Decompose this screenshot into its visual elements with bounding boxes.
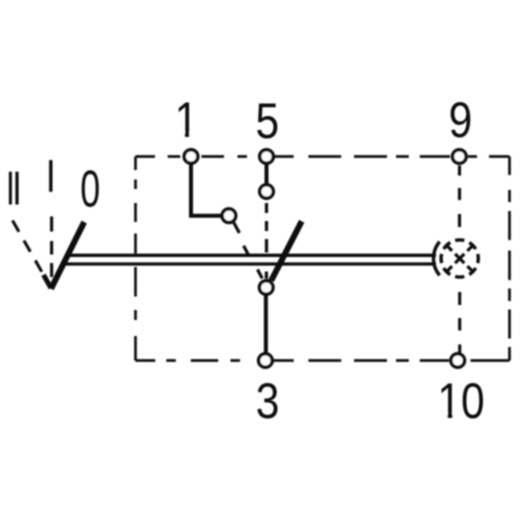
terminal 10 — [451, 354, 465, 368]
actuator arrowhead wing — [44, 275, 52, 288]
lamp cross stroke SW-NE — [447, 245, 473, 271]
lamp socket arc — [433, 242, 439, 276]
enclosure border top edge (dash-dot) — [136, 155, 510, 158]
wire from centre contact down to terminal 3 — [264, 295, 268, 355]
contact K1 (movable contact circle) — [222, 209, 236, 223]
terminal 5 — [260, 150, 274, 164]
terminal 1 — [184, 150, 198, 164]
terminal 3 — [259, 354, 273, 368]
white covers to remove Liberation "1" foot serifs — [176, 133, 461, 421]
mechanical link double line — [64, 255, 437, 264]
wire from terminal 1 down and right to movable contact — [191, 163, 222, 216]
svg-text:0: 0 — [80, 161, 100, 218]
wire from terminal 5 down to pivot contact — [265, 163, 269, 185]
dashed line from contact K5 down to centre contact — [265, 203, 268, 279]
dashed position line II — [13, 221, 47, 281]
switch lever (movable contact blade) — [271, 221, 302, 280]
enclosure border left edge (dash-dot) — [134, 157, 137, 361]
label I — [49, 160, 52, 192]
label II — [9, 172, 19, 205]
actuator lever (position 0) — [51, 222, 84, 289]
svg-text:3: 3 — [256, 373, 280, 429]
lamp cross stroke NW-SE — [447, 245, 473, 271]
enclosure border right edge (dashed) — [508, 157, 511, 361]
lamp dashed circle — [441, 240, 478, 277]
dashed position line I — [50, 217, 53, 278]
terminal 9 — [453, 150, 467, 164]
contact K5 (pivot circle) — [260, 185, 274, 199]
dashed alternate-position line from contact K1 toward centre contact — [234, 222, 263, 278]
dashed wire terminal 9 to lamp — [458, 166, 461, 228]
enclosure border bottom edge (dash-dot) — [136, 359, 510, 362]
svg-text:9: 9 — [449, 92, 473, 148]
svg-text:5: 5 — [255, 93, 279, 149]
centre contact circle — [259, 281, 273, 295]
dashed wire lamp to terminal 10 — [458, 292, 461, 353]
